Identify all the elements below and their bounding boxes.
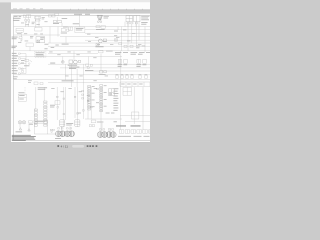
junction box A6 [35, 28, 42, 31]
diode box H1 [118, 59, 122, 63]
relay drop wires [122, 22, 145, 52]
connector R [50, 129, 54, 132]
routing label on bus [62, 79, 74, 82]
label left margin [12, 37, 18, 40]
left list stub wires [20, 54, 26, 74]
pager square icon [57, 145, 59, 147]
connector A7 [19, 37, 22, 41]
labels under box row [114, 121, 150, 136]
label C4 [95, 44, 103, 47]
motor cluster F1 [69, 60, 81, 64]
junction strip bar [120, 82, 150, 86]
cluster F3 [100, 70, 107, 73]
wire tap labels [87, 30, 141, 45]
junction box A5 [16, 28, 23, 32]
diode box H3 [137, 59, 141, 63]
motor pair Q1 [56, 131, 66, 137]
svg-text:4 / 11: 4 / 11 [61, 145, 69, 149]
label N2 [29, 123, 33, 126]
fusible link ladder L1 [34, 109, 37, 126]
relay D1 [126, 16, 133, 22]
wiper motor funnel C1 [97, 15, 103, 20]
connector boxes B1 [48, 15, 55, 17]
capsule P1 [60, 120, 65, 127]
left wire list rows [12, 53, 18, 74]
junction cluster lower-left [34, 82, 43, 85]
pager pill [72, 145, 85, 148]
relay K1 [109, 89, 114, 96]
labels beside ladder V1 [92, 86, 95, 107]
labels lower-left cluster [13, 76, 32, 82]
box B4 [68, 27, 73, 30]
wire horizontals lower [14, 35, 150, 134]
plus node G [61, 61, 64, 64]
app top band [0, 0, 150, 2]
labels beside ladder V2 [96, 85, 107, 106]
label row above bottom lines [77, 112, 114, 115]
notes text block [12, 135, 36, 141]
diode box H4 [143, 59, 147, 63]
wide box B5 [75, 27, 85, 33]
wire verticals lower [20, 87, 143, 134]
motor pair Q2 [65, 131, 75, 137]
labels near connector row [136, 46, 145, 49]
label F1 [68, 65, 80, 69]
bus wires horizontal [14, 27, 150, 83]
connector block A1 [23, 15, 25, 17]
label N4 [114, 31, 118, 37]
relay D2 [134, 16, 141, 22]
labels right of relays [141, 16, 149, 25]
label under grounds [16, 130, 23, 133]
label G1 [106, 50, 113, 53]
wire labels on buses [44, 44, 108, 96]
label E2 [21, 60, 29, 66]
label E1 [36, 52, 45, 56]
connector chain ladder V2 [100, 85, 103, 112]
wire labels upper-left [14, 16, 48, 43]
ground triangle T2 [28, 129, 30, 131]
main page [11, 14, 150, 143]
border frame [14, 16, 150, 141]
cluster N2 [29, 121, 33, 123]
inline connectors on drop wires [56, 96, 92, 115]
label between capsules [66, 123, 73, 125]
fuse box A4 [35, 16, 41, 21]
wire verticals middle [63, 51, 121, 87]
connector pair A3 [25, 19, 30, 23]
connector cluster C3 [96, 26, 105, 29]
wire verticals top [21, 14, 136, 51]
lamp cluster N1 [18, 121, 25, 124]
diode box H2 [124, 59, 128, 63]
capsule P2 [75, 120, 80, 127]
label C3 [96, 28, 105, 31]
label F3 [99, 73, 106, 76]
bottom right box row [119, 130, 150, 133]
right mid label rows [115, 52, 150, 55]
motor pair Q4 [106, 132, 116, 138]
small connector column [82, 90, 84, 99]
motor pair Q3 [97, 132, 107, 138]
box M1 [123, 87, 132, 95]
box B2 [55, 13, 59, 16]
previous page bottom strip [11, 2, 150, 9]
left list connector symbols [18, 53, 20, 74]
connectors below relays [127, 23, 138, 24]
relay A8 labels [40, 37, 44, 39]
box I1 [18, 94, 26, 101]
label ignition [13, 18, 21, 21]
connector row right [124, 45, 133, 47]
fuse row small boxes [116, 76, 148, 79]
ground triangle T1 [19, 128, 21, 130]
bottom right code labels [116, 125, 141, 126]
switch cluster J1 [55, 101, 60, 108]
label in junction bar [121, 83, 142, 86]
box A9 [26, 43, 33, 47]
label I1 [18, 92, 24, 99]
label F2 [85, 69, 93, 72]
diode box N3 [115, 39, 118, 41]
label A10 [61, 27, 68, 34]
pin list rows [113, 88, 118, 111]
label B4 [73, 22, 80, 25]
label near G [50, 62, 55, 65]
switch box A2 [26, 15, 30, 18]
dashed junction block E1 [35, 51, 46, 57]
dashed wire [24, 87, 26, 94]
cluster A10 [61, 29, 69, 32]
label O1 [35, 120, 45, 123]
label lower-left [11, 46, 17, 48]
box M2 [132, 112, 139, 119]
label J1 [50, 105, 55, 108]
fusible link ladder L2 [44, 101, 47, 126]
cluster F2 [86, 64, 93, 69]
switch cluster E2 [25, 59, 32, 64]
connectors above motors [58, 128, 114, 130]
labels under H boxes [118, 64, 147, 66]
connector chain ladder V1 [88, 86, 91, 111]
viewer background [0, 0, 150, 150]
previous page footer marks [13, 8, 143, 9]
label under Q motors [55, 137, 61, 140]
connector S2 [89, 125, 94, 127]
label S1 [97, 121, 103, 124]
cluster B3 [53, 21, 62, 23]
label mid [62, 43, 69, 46]
symbol E3 [21, 68, 24, 72]
label B5 [76, 28, 84, 30]
flat box O1 [34, 120, 48, 123]
box S1 [91, 120, 96, 123]
labels above fuse row [116, 73, 148, 76]
box G1 [99, 50, 103, 53]
connector N4 [119, 43, 122, 45]
label B3 [53, 18, 67, 24]
header label [74, 13, 90, 16]
label C1 [104, 16, 109, 19]
washer circles C2 [97, 21, 101, 23]
relay A8 [36, 37, 45, 43]
sensor cluster C4 [96, 39, 107, 46]
pager icons [87, 145, 98, 147]
label above ladders [38, 87, 47, 89]
